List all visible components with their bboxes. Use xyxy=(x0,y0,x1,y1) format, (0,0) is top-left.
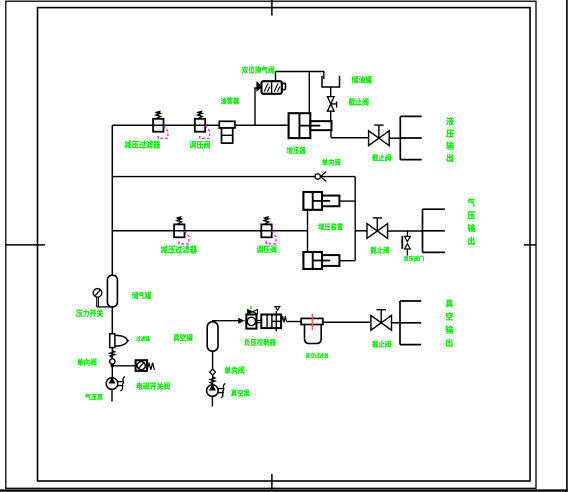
wire top overhead run xyxy=(276,72,324,79)
wire tank to small stop valve xyxy=(330,87,332,97)
label shuangweihuanqifa xyxy=(242,66,275,74)
vacuum filter xyxy=(301,318,323,324)
label jiezhifa small top xyxy=(349,98,369,106)
booster U2 upper xyxy=(303,192,322,210)
reducing filter F2 xyxy=(174,224,184,237)
flow arrow xyxy=(239,318,243,323)
label guolvqi small xyxy=(136,336,150,341)
wire left vertical of booster unit xyxy=(307,210,309,252)
wire below air tank xyxy=(111,307,113,334)
drawing sheet bottom edge xyxy=(0,489,568,491)
wire booster rod output down xyxy=(330,130,332,138)
air receiver tank xyxy=(107,275,117,307)
label jianyaguolvqi mid xyxy=(161,245,197,253)
label tiaoyafa mid xyxy=(257,245,277,253)
wire below air pump xyxy=(111,389,113,401)
booster U1 xyxy=(289,113,311,138)
label qiyashuchu vertical xyxy=(467,198,475,245)
regulator V2 xyxy=(261,224,271,237)
label jiezhifa top main xyxy=(372,154,391,161)
wire ball to junction and pump xyxy=(111,364,113,378)
label zhenkongguolvqi xyxy=(306,353,329,358)
wire middle main line xyxy=(112,230,307,232)
lubricator xyxy=(219,121,235,128)
label danxiangfa vac xyxy=(225,366,245,374)
label jiezhifa vac xyxy=(372,341,391,348)
wire valve to outlet xyxy=(389,137,400,139)
wire left bus vertical xyxy=(111,125,113,275)
wire right vertical of booster unit xyxy=(354,177,356,261)
label diancikaiguanfa xyxy=(137,382,170,390)
label danxiangfa air xyxy=(77,358,96,366)
wire filter to check ball xyxy=(111,348,113,359)
label zhenkongguan xyxy=(173,334,192,342)
label tiaoyafa top xyxy=(190,141,210,149)
wire below vacuum tank xyxy=(212,351,214,369)
vacuum tank xyxy=(207,322,218,351)
wire valve to outlet mid xyxy=(387,230,422,232)
pressure gauge switch xyxy=(93,289,102,298)
label fuyakongzhiqi xyxy=(244,338,276,345)
bottom center tick xyxy=(271,474,273,490)
vacuum stop valve xyxy=(371,315,392,330)
right center tick xyxy=(524,244,537,246)
wire upper booster rod to right vertical xyxy=(339,200,355,202)
wire controller to vacuum filter xyxy=(286,321,301,323)
label youwuqi xyxy=(221,97,240,104)
check valve diamond xyxy=(210,369,216,375)
label danxiangfa mid xyxy=(322,159,340,166)
wire to hydraulic stop valve xyxy=(331,137,369,139)
top center tick xyxy=(271,0,273,16)
regulator V1 xyxy=(195,119,205,132)
wire booster unit output xyxy=(355,230,367,232)
spring above check ball xyxy=(110,350,115,357)
wire valve to outlet vac xyxy=(392,322,401,324)
air compressor pump xyxy=(106,378,118,390)
junction dot xyxy=(111,364,114,367)
relief valve xyxy=(405,236,411,241)
wire stop valve to rod box xyxy=(330,111,332,121)
label yalikaiguan xyxy=(76,309,103,317)
wire valve top stem xyxy=(275,72,277,82)
oil reservoir tank open cup xyxy=(322,76,340,87)
check ball valve xyxy=(110,359,115,364)
wire vacuum tank to controller xyxy=(213,321,239,322)
booster U3 lower xyxy=(303,252,322,269)
two-position changeover valve xyxy=(262,81,282,94)
vacuum pump xyxy=(207,385,219,397)
label jianyaguolvqi top xyxy=(125,140,161,148)
small stop valve vertical xyxy=(327,97,334,112)
relief valve drop wire xyxy=(406,231,408,236)
spring above vacuum pump xyxy=(212,375,214,384)
reducing filter F1 xyxy=(153,119,163,132)
wire branch to changeover valve xyxy=(255,88,257,125)
label xieyafamen xyxy=(403,256,423,262)
wire filter to vacuum stop valve xyxy=(323,321,371,323)
drawing sheet right edge xyxy=(566,0,568,492)
label zhenkongshuchu vertical xyxy=(445,299,453,347)
wire below vacuum pump xyxy=(211,396,213,406)
hydraulic stop valve xyxy=(369,131,390,146)
wire lower booster rod to right vertical xyxy=(339,260,355,262)
wire top main line xyxy=(112,124,288,126)
vacuum outlet port xyxy=(399,301,401,345)
label zengyazhuangzhi xyxy=(318,223,343,230)
label zengyaqi xyxy=(287,147,306,154)
label jiezhifa mid xyxy=(370,247,389,254)
wire junction to solenoid valve xyxy=(112,365,135,367)
label chuqiguan xyxy=(132,292,151,299)
hydraulic outlet port xyxy=(399,116,401,159)
label qiyabeng xyxy=(85,394,103,401)
pneumatic outlet port xyxy=(422,209,424,252)
left center tick xyxy=(6,244,45,246)
label yeyashuchu vertical xyxy=(446,117,454,162)
vacuum controller U4 xyxy=(246,315,256,329)
label zhenkongbeng xyxy=(231,389,250,396)
wire drop to booster top xyxy=(308,72,310,114)
wire middle overhead line xyxy=(112,176,355,178)
check valve on overhead line xyxy=(315,174,320,179)
pneumatic stop valve xyxy=(367,224,388,239)
solenoid switch valve xyxy=(136,360,147,371)
line filter cup xyxy=(110,334,115,348)
label chuyouguan xyxy=(352,76,372,84)
